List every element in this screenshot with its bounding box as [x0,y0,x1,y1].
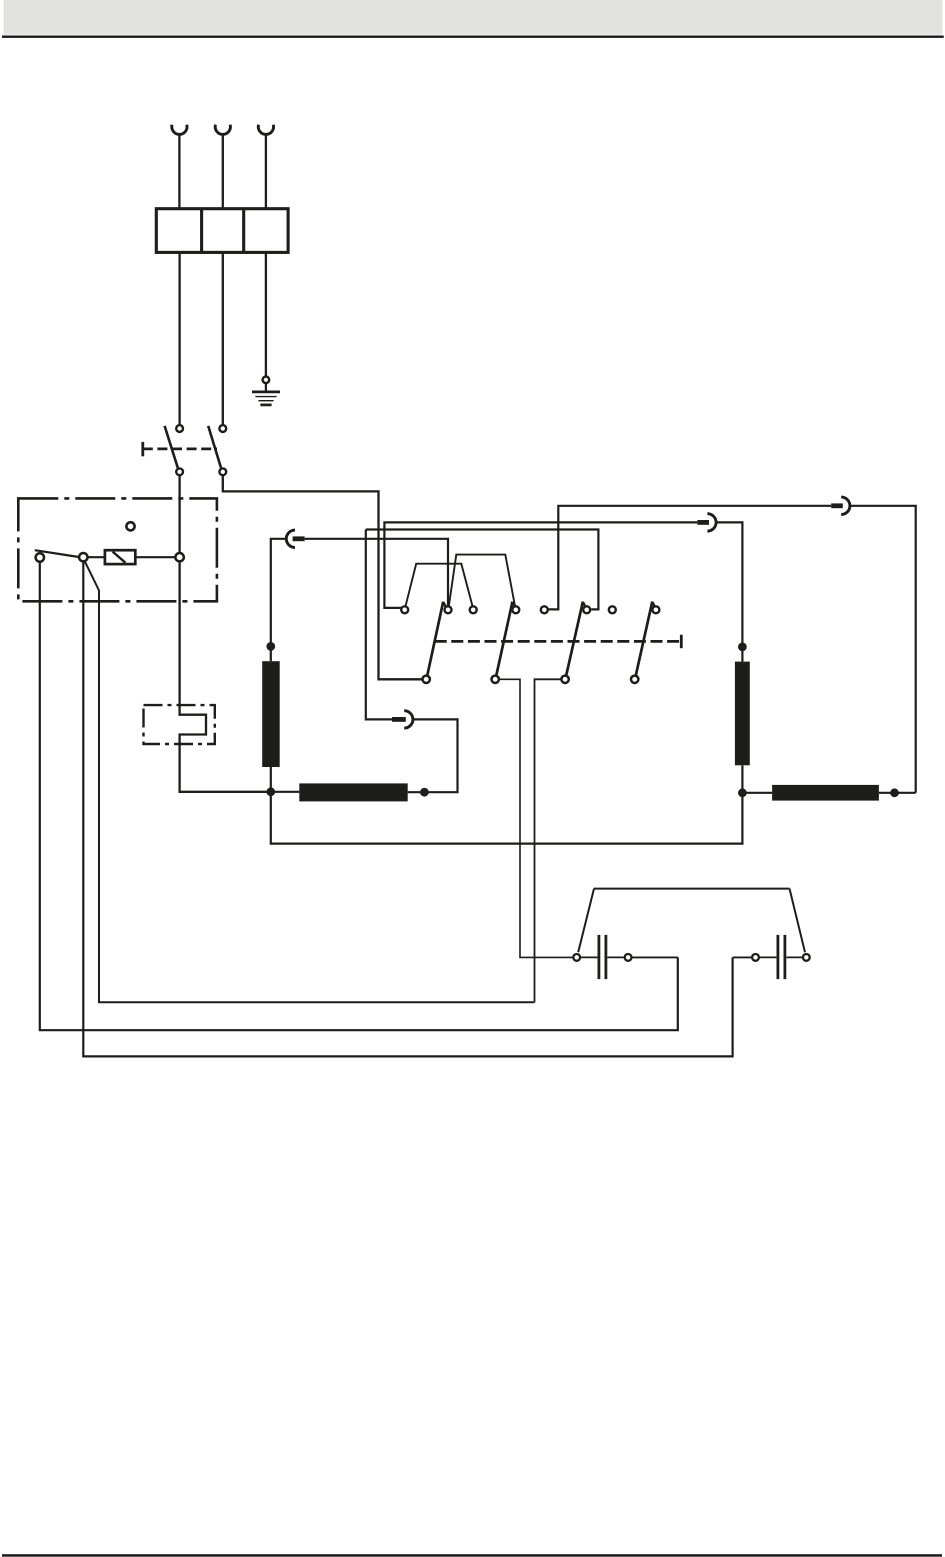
wire hook X4 to net C riser [366,530,392,720]
wire net A to right riser [850,506,916,793]
connector hook X2 arc [707,514,716,531]
wire junction to aux winding [742,792,772,794]
breaker pole2 top contact [219,425,226,432]
supply terminal L1 [172,125,187,135]
connector hook X4 arc [404,711,413,728]
supply terminal L3 [258,125,273,135]
bridge left slant [578,889,594,953]
breaker pole1 bottom contact [176,468,183,475]
blade P1 tip barb [443,602,446,607]
wire coil to phase node [135,556,175,558]
wire aux-right contact down [83,562,732,1057]
wire junction to aux winding [271,791,300,793]
bottom contact B3 [561,676,568,683]
wire winding to junction [741,765,743,793]
breaker blade pole 1 [165,426,178,468]
contactor enclosure box [18,498,217,601]
wire pole2 to switch bottom contact 1 [223,476,422,680]
wire dot to winding [741,647,743,662]
wire net B to right winding top [716,522,742,645]
bottom contact B4 [631,676,638,683]
connector hook X1 arc [286,530,295,547]
wire phase1 box to thermal jog [180,562,267,792]
wire dot to winding [270,646,272,661]
wire L1 fuse to breaker [178,252,180,424]
capacitor C2 plates [778,935,785,979]
fuse block F1 (3 cells) [156,209,288,253]
C2 right lead [786,956,802,958]
wire contact to coil [88,556,105,558]
connector hook X3 bar [831,503,843,508]
breaker linkage bar [141,442,144,456]
top contact T8 [652,606,659,613]
header grey bar [4,0,943,35]
top contact T6 [583,606,590,613]
C2 left lead [759,956,776,958]
wire L3 fuse to earth [265,252,267,375]
blade P2 tip barb [513,602,516,607]
wire aux-left contact down [40,562,678,1030]
wire C1 right to corner [632,956,678,958]
main winding U1 (vertical bar) [262,661,280,767]
aux winding U2 (horizontal bar) [299,783,407,801]
top contact T4 [512,606,519,613]
terminal dot right aux winding [890,788,899,797]
switch blade P3 [566,602,583,676]
C1 left lead [581,956,598,958]
capacitor C1 right terminal [625,954,632,961]
wire net C (y529.5) run [366,530,599,610]
footer rule [2,1554,942,1557]
breaker linkage dashed [143,448,217,451]
link trapezoid T2-T4 [449,555,515,606]
wire net A (y505.8) left corner down to contact T5 [548,506,831,610]
capacitor C2 right terminal [803,954,810,961]
wire L2 fuse to breaker [222,252,224,424]
wire L3 drop to fuse [265,135,267,210]
bottom contact B2 [492,676,499,683]
node on phase1 in box [175,553,183,561]
junction dot left winding top [266,642,275,651]
C1 right lead [607,956,624,958]
breaker pole2 bottom contact [219,468,226,475]
connector hook X1 bar [293,536,305,541]
aux switch blade in box [35,550,79,557]
wire slant from aux-right [85,561,535,1002]
aux contact left [36,553,44,561]
blade P3 tip barb [583,602,586,607]
wire aux winding lead [408,719,458,792]
wire winding to junction [270,767,272,792]
indicator circle inside box [126,522,134,530]
thermal dash-dot box [144,705,215,744]
wire C2 left corner [733,956,752,958]
ground symbol PE [252,383,280,405]
wire L1 drop to fuse [178,135,180,210]
capacitor bridge top wire [594,888,790,890]
breaker blade pole 2 [208,426,221,468]
wire riser to switch contact B3 [535,679,561,1002]
main winding U3 (vertical bar) [735,662,750,766]
top contact T1 [401,606,408,613]
bottom contact B1 [423,676,430,683]
wire left star to bottom bus [271,792,743,844]
bridge right slant [790,889,806,953]
wire aux winding lead right [879,792,916,794]
switch blade P2 [496,602,512,676]
earth terminal circle [263,377,270,384]
wire net D run to contact T2 [305,539,448,606]
connector hook X4 bar [392,717,406,722]
wire net D (y538.8) from left riser [271,539,287,645]
aux winding U4 (horizontal bar) [772,785,879,801]
top contact T7 [609,606,616,613]
aux contact right [79,553,87,561]
header rule [2,36,944,38]
terminal dot aux winding [420,788,429,797]
supply terminal L2 [215,125,230,135]
junction dot right star point [738,788,747,797]
top contact T5 [541,606,548,613]
breaker pole1 top contact [176,425,183,432]
capacitor C1 plates [599,935,606,979]
switch blade P4 [636,602,653,676]
linkage dashed line [435,640,682,643]
switch blade P1 [427,602,443,676]
jog wire bottom contact B2 to capacitor feed [500,679,573,957]
wire L2 drop to fuse [222,135,224,210]
capacitor C2 left terminal [752,954,759,961]
capacitor C1 left terminal [573,954,580,961]
relay coil K1 [105,550,135,564]
top contact T3 [470,606,477,613]
wire pole1 down into contactor box [178,476,180,554]
junction dot right winding top [738,643,747,652]
blade P4 tip barb [652,602,655,607]
wire net B (y522.4) corner to contact T1 [384,522,697,608]
junction dot left star point [266,787,275,796]
linkage end bar [680,635,683,649]
top contact T2 [445,606,452,613]
link trapezoid T1-T3 [406,564,473,606]
connector hook X2 bar [697,520,709,525]
connector hook X3 arc [841,497,850,514]
